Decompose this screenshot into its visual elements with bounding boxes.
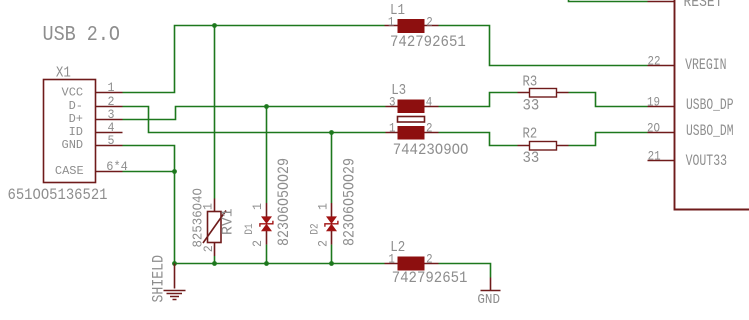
wire R3 to USB0_DP — [569, 93, 648, 107]
node shield rail junction 1 — [172, 261, 177, 266]
svg-text:D-: D- — [69, 99, 83, 113]
wire L3 pin4 to R3 — [439, 93, 518, 107]
svg-text:2: 2 — [317, 240, 331, 247]
wire RV1 to bottom rail — [214, 256, 216, 264]
svg-text:X1: X1 — [56, 65, 71, 82]
svg-text:21: 21 — [648, 149, 661, 164]
ground symbol (earth, shield) — [164, 264, 186, 300]
resistor R2 — [518, 142, 569, 151]
svg-text:742792651: 742792651 — [390, 33, 466, 51]
svg-text:R2: R2 — [523, 126, 538, 143]
svg-text:4: 4 — [426, 95, 433, 110]
svg-text:D2: D2 — [309, 223, 321, 234]
svg-text:CASE: CASE — [55, 164, 84, 178]
svg-text:33: 33 — [523, 149, 540, 167]
wire L1 to VREGIN — [439, 26, 648, 66]
wire GND down — [123, 146, 175, 264]
svg-text:R3: R3 — [523, 73, 538, 90]
node shield rail junction 2 — [212, 261, 217, 266]
svg-text:D+: D+ — [69, 112, 83, 126]
IC U1 border — [675, 0, 749, 210]
IC pin VREGIN stub — [648, 65, 675, 67]
svg-text:22: 22 — [648, 54, 661, 69]
svg-text:ID: ID — [69, 125, 83, 139]
svg-text:4: 4 — [108, 121, 115, 135]
node D+ junction — [264, 104, 269, 109]
resistor R3 — [518, 89, 569, 98]
pin 4 stub (ID, unconnected) — [96, 132, 123, 134]
svg-text:2: 2 — [426, 121, 433, 136]
common mode choke L3 — [386, 100, 439, 140]
node shield rail junction 3 — [264, 261, 269, 266]
svg-text:3: 3 — [108, 108, 115, 122]
wire D- jog down — [123, 107, 386, 133]
connector X1 box — [44, 80, 96, 183]
node D- junction — [329, 130, 334, 135]
svg-text:D1: D1 — [244, 223, 256, 235]
IC pin USB0_DP stub — [648, 106, 675, 108]
svg-text:2: 2 — [108, 95, 115, 109]
svg-text:5: 5 — [108, 134, 115, 148]
svg-text:USBO_DP: USBO_DP — [686, 96, 734, 114]
svg-text:1: 1 — [388, 15, 395, 30]
IC pin RESET stub — [648, 1, 675, 3]
pin 3 stub — [96, 119, 123, 121]
svg-text:1: 1 — [388, 252, 395, 267]
svg-text:USBO_DM: USBO_DM — [686, 122, 734, 140]
svg-text:1: 1 — [202, 203, 216, 210]
svg-text:2: 2 — [251, 240, 265, 247]
wire D+ jog up — [123, 107, 386, 120]
svg-text:GND: GND — [62, 138, 84, 152]
pin 2 stub — [96, 106, 123, 108]
varistor RV1 — [203, 199, 226, 257]
svg-text:1: 1 — [317, 203, 331, 210]
wire bottom shield rail — [175, 263, 385, 265]
wire D2 to bottom rail — [331, 245, 333, 264]
IC pin VOUT33 stub (unconnected) — [648, 160, 675, 162]
svg-text:VOUT33: VOUT33 — [686, 152, 727, 170]
svg-text:2: 2 — [426, 252, 433, 267]
wire D1 to bottom rail — [266, 245, 268, 264]
svg-text:742792651: 742792651 — [392, 269, 468, 287]
ground symbol GND (supply) — [481, 278, 501, 291]
diode D1 (bidirectional TVS) — [260, 203, 273, 245]
IC pin USB0_DM stub — [648, 132, 675, 134]
svg-text:RV1: RV1 — [220, 208, 237, 235]
svg-text:VCC: VCC — [62, 85, 84, 99]
svg-text:2: 2 — [426, 15, 433, 30]
inductor L2 — [385, 257, 439, 271]
wire RESET net — [569, 0, 648, 2]
pin CASE stub — [96, 171, 123, 173]
wire L3 pin2 to R2 — [439, 133, 518, 146]
svg-text:823O6O5OO29: 823O6O5OO29 — [275, 158, 293, 246]
svg-text:GND: GND — [477, 292, 500, 308]
svg-text:1: 1 — [389, 121, 396, 136]
node top rail junction — [212, 23, 217, 28]
svg-text:2O: 2O — [647, 120, 660, 135]
svg-text:651OO5136521: 651OO5136521 — [8, 186, 108, 204]
wire D1 drop — [266, 107, 268, 204]
wire top rail to RV1 — [214, 26, 216, 199]
svg-text:SHIELD: SHIELD — [150, 255, 168, 303]
wire CASE — [123, 171, 175, 173]
wire R2 to USB0_DM — [569, 133, 648, 146]
inductor L1 — [385, 19, 439, 33]
svg-text:1: 1 — [108, 81, 115, 95]
svg-text:3: 3 — [389, 95, 396, 110]
svg-text:2: 2 — [202, 245, 216, 252]
svg-text:USB 2.O: USB 2.O — [43, 23, 121, 47]
svg-text:74423O9OO: 74423O9OO — [393, 141, 469, 159]
svg-text:823O6O5OO29: 823O6O5OO29 — [341, 158, 359, 246]
svg-text:VREGIN: VREGIN — [685, 56, 727, 74]
wire L2 to GND — [439, 264, 491, 278]
node CASE junction — [172, 169, 177, 174]
pin 1 stub — [96, 92, 123, 94]
svg-text:1: 1 — [251, 203, 265, 210]
wire VCC to top rail — [123, 26, 385, 93]
svg-text:82536O4O: 82536O4O — [191, 188, 207, 248]
diode D2 (bidirectional TVS) — [325, 203, 338, 245]
svg-text:33: 33 — [523, 97, 540, 115]
pin 5 stub — [96, 145, 123, 147]
svg-text:RESET: RESET — [684, 0, 723, 11]
node shield rail junction 4 — [329, 261, 334, 266]
svg-text:19: 19 — [647, 94, 660, 109]
wire D2 drop — [331, 133, 333, 204]
